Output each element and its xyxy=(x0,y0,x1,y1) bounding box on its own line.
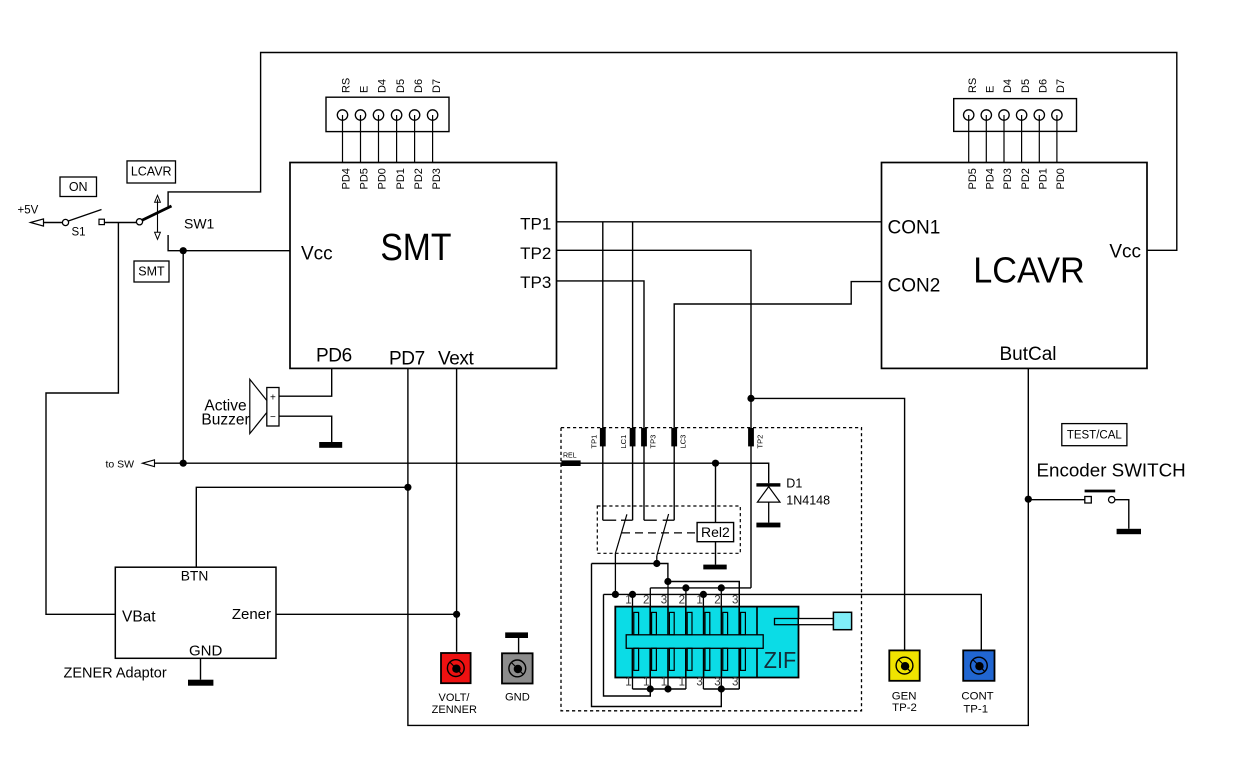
svg-text:TP-2: TP-2 xyxy=(892,702,917,714)
dashed actuation line xyxy=(622,532,697,534)
pin label PD3 xyxy=(431,168,443,189)
label VOLT/ZENNER xyxy=(432,692,477,716)
svg-text:D7: D7 xyxy=(1055,79,1067,93)
label box SMT xyxy=(134,261,169,282)
svg-text:D1: D1 xyxy=(786,477,802,491)
svg-text:1: 1 xyxy=(679,676,685,688)
svg-text:3: 3 xyxy=(732,676,738,688)
svg-text:PD2: PD2 xyxy=(1020,168,1032,189)
svg-text:SW1: SW1 xyxy=(184,216,215,232)
wire net3 linkA xyxy=(668,582,739,690)
pin Vext xyxy=(438,349,474,370)
ZIF pin number bottom 7 xyxy=(732,676,738,688)
terminal VOLT/ZENNER xyxy=(441,653,471,683)
svg-text:PD0: PD0 xyxy=(377,168,389,189)
wire net3 top xyxy=(592,564,668,582)
svg-text:TP3: TP3 xyxy=(649,435,658,449)
wire net3 outer loop xyxy=(592,564,722,707)
ZIF pin number top 5 xyxy=(696,594,702,606)
wire xyxy=(396,115,398,163)
ZIF pin number top 7 xyxy=(732,594,738,606)
svg-text:to SW: to SW xyxy=(106,458,135,470)
junction xyxy=(747,395,754,402)
svg-text:1: 1 xyxy=(625,676,631,688)
encoder switch xyxy=(1028,491,1129,529)
svg-text:PD5: PD5 xyxy=(359,168,371,189)
label D5 xyxy=(395,79,407,93)
svg-text:CON1: CON1 xyxy=(888,217,941,238)
svg-text:PD0: PD0 xyxy=(1055,168,1067,189)
svg-text:TEST/CAL: TEST/CAL xyxy=(1067,430,1123,442)
wire xyxy=(968,115,970,163)
connector SMT LCD header xyxy=(326,97,449,131)
bar LC3 xyxy=(671,428,687,449)
svg-text:D5: D5 xyxy=(395,79,407,93)
junction xyxy=(664,685,671,692)
svg-text:+5V: +5V xyxy=(18,205,39,217)
connector LCAVR LCD header xyxy=(954,99,1077,132)
label D6 xyxy=(1038,79,1050,93)
svg-text:Vcc: Vcc xyxy=(1109,241,1141,262)
label GND xyxy=(505,692,530,704)
ZIF pin number top 3 xyxy=(661,594,667,606)
pin label PD4 xyxy=(985,168,997,189)
relay lever 2 xyxy=(657,514,669,564)
wire to GEN TP-2 xyxy=(751,398,905,650)
svg-text:VOLT/: VOLT/ xyxy=(439,692,471,704)
svg-text:BTN: BTN xyxy=(181,569,209,584)
junction xyxy=(712,460,719,467)
pin label PD4 xyxy=(341,168,353,189)
svg-text:1N4148: 1N4148 xyxy=(786,494,830,508)
svg-text:TP1: TP1 xyxy=(520,215,551,234)
svg-text:2: 2 xyxy=(643,594,649,606)
label D6 xyxy=(413,79,425,93)
label RS xyxy=(967,78,979,93)
svg-text:SMT: SMT xyxy=(380,225,451,269)
arrow to SW xyxy=(143,460,155,467)
label E xyxy=(985,86,997,93)
svg-text:ZENNER: ZENNER xyxy=(432,704,477,716)
pin PD6 xyxy=(316,346,352,367)
label box LCAVR xyxy=(127,161,176,183)
svg-text:LCAVR: LCAVR xyxy=(973,251,1084,291)
wire GND terminal xyxy=(518,638,520,653)
pin label PD5 xyxy=(967,168,979,189)
wire xyxy=(360,115,362,163)
wire ZIF pin 7 xyxy=(738,582,740,690)
svg-text:TP-1: TP-1 xyxy=(963,704,988,716)
label RS xyxy=(341,78,353,93)
label SW1 xyxy=(184,216,215,232)
module LCAVR xyxy=(882,163,1148,369)
contact hook TP3 xyxy=(644,519,657,521)
pin label PD2 xyxy=(1020,168,1032,189)
wire buzzer- to ground xyxy=(279,416,332,442)
ZIF pin number bottom 3 xyxy=(661,676,667,688)
label Active Buzzer xyxy=(201,397,249,428)
label D7 xyxy=(431,79,443,93)
wire xyxy=(1003,115,1005,163)
svg-text:1: 1 xyxy=(696,594,702,606)
svg-text:3: 3 xyxy=(732,594,738,606)
wire xyxy=(414,115,416,163)
svg-text:TP2: TP2 xyxy=(756,435,765,449)
svg-text:E: E xyxy=(985,86,997,93)
wire xyxy=(182,251,184,464)
svg-text:Encoder SWITCH: Encoder SWITCH xyxy=(1037,459,1186,480)
wire ZIF pin 6 xyxy=(720,588,722,689)
svg-text:PD2: PD2 xyxy=(413,168,425,189)
pin TP1 xyxy=(520,215,551,234)
svg-text:S1: S1 xyxy=(72,227,86,239)
pin label PD5 xyxy=(359,168,371,189)
pin Zener xyxy=(232,606,271,623)
svg-text:SMT: SMT xyxy=(138,265,165,279)
pin BTN xyxy=(181,569,209,584)
junction xyxy=(180,247,187,254)
switch S1 xyxy=(62,210,104,226)
pin label PD0 xyxy=(1055,168,1067,189)
terminal GND xyxy=(502,653,533,683)
ground xyxy=(319,442,342,448)
wire PD7 to ButCal xyxy=(408,368,1028,725)
fuse bar REL xyxy=(561,453,580,467)
svg-text:TP1: TP1 xyxy=(589,435,598,449)
svg-text:REL: REL xyxy=(563,453,577,460)
junction xyxy=(453,611,460,618)
ground xyxy=(703,565,726,570)
wire xyxy=(342,115,344,163)
pin PD7 xyxy=(389,349,425,370)
wire SW1 throw SMT to SMT Vcc xyxy=(168,235,290,251)
svg-text:D6: D6 xyxy=(1038,79,1050,93)
wire to D1 xyxy=(751,463,769,483)
wire net1 left loop xyxy=(604,594,651,696)
terminal CONT TP-1 xyxy=(963,650,994,680)
wire net2 linkB xyxy=(650,587,751,589)
svg-text:E: E xyxy=(359,86,371,93)
wire xyxy=(1038,115,1040,163)
label ZENER Adaptor xyxy=(64,666,167,682)
ground xyxy=(505,632,528,638)
junction xyxy=(718,685,725,692)
pin CON2 xyxy=(888,275,941,296)
ZIF pin number top 4 xyxy=(679,594,685,606)
ZIF pin number top 2 xyxy=(643,594,649,606)
net label to SW xyxy=(106,458,135,470)
svg-text:CONT: CONT xyxy=(961,691,993,703)
svg-text:Zener: Zener xyxy=(232,606,271,623)
svg-text:ButCal: ButCal xyxy=(999,344,1056,365)
svg-text:3: 3 xyxy=(714,676,720,688)
wire bottom tie 5-7 xyxy=(703,688,739,690)
svg-text:2: 2 xyxy=(679,594,685,606)
junction xyxy=(180,460,187,467)
pin label PD3 xyxy=(1002,168,1014,189)
label ZIF xyxy=(764,648,796,674)
junction xyxy=(664,578,671,585)
pin TP3 xyxy=(520,273,551,292)
wire xyxy=(43,222,62,224)
pin circle 4 xyxy=(391,110,401,120)
diode D1 1N4148 xyxy=(756,483,780,522)
ZIF pin number bottom 6 xyxy=(714,676,720,688)
dashed box xyxy=(561,428,862,711)
svg-text:PD1: PD1 xyxy=(395,168,407,189)
svg-text:D7: D7 xyxy=(431,79,443,93)
svg-text:TP3: TP3 xyxy=(520,273,551,292)
relay lever 1 xyxy=(615,514,627,594)
contact hook LC3 xyxy=(663,519,675,521)
ZIF pin number bottom 1 xyxy=(625,676,631,688)
wire ZIF pin 4 xyxy=(685,588,687,689)
pin circle 4 xyxy=(1016,110,1026,120)
bar TP1 xyxy=(589,428,605,449)
svg-text:ZIF: ZIF xyxy=(764,648,796,674)
svg-text:VBat: VBat xyxy=(122,608,156,625)
label D5 xyxy=(1020,79,1032,93)
junction xyxy=(700,591,707,598)
junction xyxy=(682,584,689,591)
svg-text:PD3: PD3 xyxy=(431,168,443,189)
svg-text:LCAVR: LCAVR xyxy=(131,165,172,179)
ZIF pin number bottom 2 xyxy=(643,676,649,688)
relay Rel2 xyxy=(697,523,734,542)
svg-text:1: 1 xyxy=(643,676,649,688)
wire TP1-CON1 xyxy=(557,221,882,223)
pin circle 1 xyxy=(337,110,347,120)
label Encoder SWITCH xyxy=(1037,459,1186,480)
pin circle 3 xyxy=(373,110,383,120)
svg-text:Vext: Vext xyxy=(438,349,474,370)
junction xyxy=(653,560,660,567)
pin circle 5 xyxy=(409,110,419,120)
ground xyxy=(188,680,213,686)
dashed relay box xyxy=(597,506,740,553)
contact hook TP1 xyxy=(603,519,616,521)
buzzer BZ1 Active Buzzer xyxy=(250,379,279,433)
svg-text:RS: RS xyxy=(341,78,353,93)
svg-text:ON: ON xyxy=(69,180,88,194)
svg-text:D6: D6 xyxy=(413,79,425,93)
label GEN TP-2 xyxy=(892,691,917,715)
junction xyxy=(629,591,636,598)
wire TP2 xyxy=(557,250,752,588)
svg-text:Vcc: Vcc xyxy=(301,244,333,265)
junction xyxy=(647,685,654,692)
pin label PD1 xyxy=(395,168,407,189)
svg-text:GND: GND xyxy=(189,643,223,660)
ground xyxy=(1117,529,1141,534)
pin label PD2 xyxy=(413,168,425,189)
svg-text:PD4: PD4 xyxy=(985,168,997,189)
ZIF pin number top 1 xyxy=(625,594,631,606)
pin VBat xyxy=(122,608,156,625)
svg-text:D5: D5 xyxy=(1020,79,1032,93)
pin label PD1 xyxy=(1038,168,1050,189)
svg-text:2: 2 xyxy=(714,594,720,606)
label box TEST/CAL xyxy=(1062,424,1127,446)
wire Rel2 coil bottom xyxy=(715,542,717,565)
junction xyxy=(612,591,619,598)
svg-text:GND: GND xyxy=(505,692,530,704)
wire ZIF pin 3 xyxy=(667,582,669,690)
label D4 xyxy=(1002,79,1014,93)
wire Vext xyxy=(456,368,458,614)
svg-text:3: 3 xyxy=(661,594,667,606)
arrow +5V xyxy=(31,219,44,226)
wire SW1 throw LCAVR to LCAVR Vcc xyxy=(168,53,1177,251)
junction xyxy=(1025,496,1032,503)
wire PD6 to buzzer+ xyxy=(279,368,332,396)
junction xyxy=(404,484,411,491)
label CONT TP-1 xyxy=(961,691,993,716)
svg-text:RS: RS xyxy=(967,78,979,93)
pin Vcc xyxy=(1109,241,1141,262)
wire xyxy=(378,115,380,163)
net label +5V xyxy=(18,205,39,217)
wire LC1 drop xyxy=(632,222,634,520)
pin circle 2 xyxy=(355,110,365,120)
junction xyxy=(718,584,725,591)
terminal GEN TP-2 xyxy=(889,650,919,680)
pin CON1 xyxy=(888,217,941,238)
pin circle 1 xyxy=(964,110,974,120)
label D1 xyxy=(786,477,802,491)
wire ZIF pin 1 xyxy=(632,594,634,689)
ZIF pin number top 6 xyxy=(714,594,720,606)
pin label PD0 xyxy=(377,168,389,189)
wire net1 linkC xyxy=(604,594,982,650)
wire TP3 xyxy=(557,281,645,520)
wire xyxy=(1056,115,1058,163)
svg-text:LC1: LC1 xyxy=(619,435,628,449)
wire BTN xyxy=(196,487,408,567)
wire Zener to VOLT/ZENNER xyxy=(456,614,458,652)
pin circle 5 xyxy=(1034,110,1044,120)
svg-text:GEN: GEN xyxy=(892,691,917,703)
wire TP1 drop xyxy=(602,222,604,520)
ZIF socket xyxy=(615,607,798,678)
ZIF pin number bottom 4 xyxy=(679,676,685,688)
ZIF pin number bottom 5 xyxy=(696,676,702,688)
pin Vcc xyxy=(301,244,333,265)
wire CON2 to LC3 xyxy=(674,282,881,521)
wire xyxy=(104,222,136,224)
pin TP2 xyxy=(520,244,551,263)
label 1N4148 xyxy=(786,494,830,508)
svg-text:D4: D4 xyxy=(377,79,389,93)
svg-text:PD5: PD5 xyxy=(967,168,979,189)
wire GND pin xyxy=(200,658,202,679)
bar TP3 xyxy=(641,428,657,449)
wire xyxy=(985,115,987,163)
bar LC1 xyxy=(619,428,635,449)
label S1 xyxy=(72,227,86,239)
contact hook LC1 xyxy=(621,519,633,521)
svg-text:D4: D4 xyxy=(1002,79,1014,93)
svg-text:1: 1 xyxy=(625,594,631,606)
module ZENER Adaptor xyxy=(115,567,276,658)
wire Zener out xyxy=(276,613,457,615)
svg-text:+: + xyxy=(270,393,276,404)
wire xyxy=(46,223,118,615)
module SMT xyxy=(290,163,557,369)
pin circle 2 xyxy=(981,110,991,120)
switch SW1 xyxy=(136,195,171,239)
label D7 xyxy=(1055,79,1067,93)
pin GND xyxy=(189,643,223,660)
svg-text:PD4: PD4 xyxy=(341,168,353,189)
wire ZIF pin 5 xyxy=(702,594,704,689)
pin circle 6 xyxy=(427,110,437,120)
svg-text:PD7: PD7 xyxy=(389,349,425,370)
svg-text:PD6: PD6 xyxy=(316,346,352,367)
bar TP2 xyxy=(748,428,764,449)
svg-text:PD1: PD1 xyxy=(1038,168,1050,189)
label E xyxy=(359,86,371,93)
wire to-SW line xyxy=(155,462,769,464)
wire Rel2 coil top xyxy=(715,463,717,522)
wire xyxy=(432,115,434,163)
svg-text:ZENER Adaptor: ZENER Adaptor xyxy=(64,666,167,682)
svg-text:3: 3 xyxy=(696,676,702,688)
wire xyxy=(1021,115,1023,163)
svg-text:TP2: TP2 xyxy=(520,244,551,263)
pin circle 6 xyxy=(1052,110,1062,120)
ZIF handle xyxy=(775,612,852,629)
svg-text:LC3: LC3 xyxy=(679,435,688,449)
pin circle 3 xyxy=(999,110,1009,120)
svg-text:PD3: PD3 xyxy=(1002,168,1014,189)
svg-text:−: − xyxy=(270,412,276,423)
svg-text:Buzzer: Buzzer xyxy=(201,411,249,428)
label box ON xyxy=(60,177,97,197)
pin ButCal xyxy=(999,344,1056,365)
wire bottom tie 1-4 xyxy=(633,688,686,690)
wire ZIF pin 2 xyxy=(649,588,651,689)
label D4 xyxy=(377,79,389,93)
svg-text:1: 1 xyxy=(661,676,667,688)
svg-text:Rel2: Rel2 xyxy=(701,524,730,540)
ground xyxy=(756,523,780,528)
svg-text:CON2: CON2 xyxy=(888,275,941,296)
